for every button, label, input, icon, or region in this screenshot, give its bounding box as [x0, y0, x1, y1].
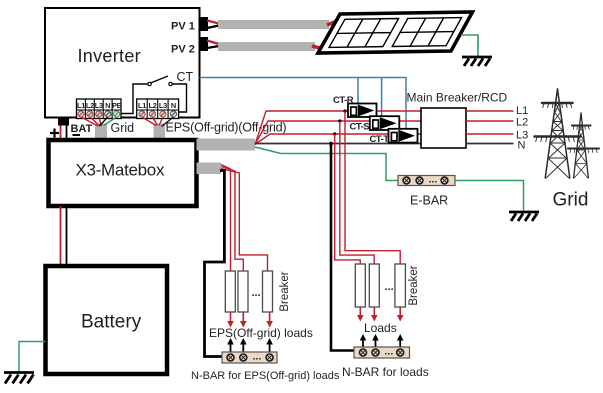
wire L2 red: [255, 121, 421, 145]
CT sensor CT-S: [370, 116, 400, 130]
wire tb2 L1 to EPS conduit: [142, 117, 156, 126]
breaker Loads 1: [355, 264, 365, 307]
svg-text:...: ...: [429, 174, 438, 186]
PV1 connector: [200, 17, 209, 31]
breaker EPS 3: [263, 271, 273, 312]
svg-text:L1: L1: [77, 101, 85, 110]
svg-text:Breaker: Breaker: [279, 271, 291, 311]
svg-text:L2: L2: [86, 101, 94, 110]
wire tb1 N to Grid conduit: [100, 117, 108, 126]
solar panel PV array: [318, 12, 473, 53]
svg-text:L2: L2: [148, 101, 156, 110]
wire L1 tap to breaker3: [345, 111, 400, 264]
node L1 tap: [343, 109, 346, 112]
svg-text:L1: L1: [516, 105, 528, 117]
wire L3 red: [255, 134, 421, 145]
svg-text:...: ...: [252, 287, 261, 299]
svg-text:L2: L2: [516, 117, 528, 129]
wire tb1 PE to Grid conduit: [104, 117, 117, 126]
Main Breaker / RCD box: [421, 108, 466, 148]
panel cells group B: [392, 18, 461, 47]
conduit EPS (gray): [154, 124, 166, 141]
wire EPS feed to breaker1 (red): [221, 165, 231, 272]
breaker Loads 2: [369, 264, 379, 307]
svg-text:PV 2: PV 2: [171, 44, 195, 56]
svg-text:BAT: BAT: [71, 123, 93, 135]
wire E-BAR ground (green): [455, 181, 524, 212]
node N junction: [329, 142, 333, 146]
wire CT bus (blue): [200, 78, 407, 129]
conduit Grid (gray): [95, 124, 107, 141]
arrows EPS breaker outputs (red): [227, 312, 273, 328]
CT switch S1: [121, 76, 187, 114]
wire switch left leg: [121, 84, 148, 114]
wire BAT red: [60, 126, 62, 141]
CT sensor CT-T: [389, 129, 418, 143]
E-BAR strip: [398, 174, 455, 186]
wire L3 out: [466, 133, 514, 135]
svg-text:Loads: Loads: [364, 321, 397, 335]
arrows to EPS loads (black, up): [227, 338, 273, 352]
wire switch right leg: [173, 84, 187, 112]
svg-text:Inverter: Inverter: [78, 46, 141, 66]
grid towers: [535, 89, 600, 178]
wire tb1 L1 to Grid conduit: [81, 117, 98, 126]
switch contact left: [148, 82, 151, 85]
svg-text:N: N: [171, 101, 176, 110]
wire L1 out: [466, 110, 514, 112]
svg-text:L1: L1: [138, 101, 146, 110]
wire L2 tap to breaker2: [340, 121, 374, 264]
svg-text:L3: L3: [95, 101, 103, 110]
switch lever: [151, 76, 169, 83]
svg-text:E-BAR: E-BAR: [410, 194, 448, 208]
wire CT bus horizontal + drop to CT-T: [200, 78, 407, 129]
svg-text:PV 1: PV 1: [171, 21, 195, 33]
svg-text:N: N: [105, 101, 110, 110]
svg-text:Breaker: Breaker: [408, 265, 420, 305]
node L2 tap: [338, 119, 341, 122]
wire tb2 N to EPS conduit: [162, 117, 174, 127]
N-BAR loads strip: [354, 346, 410, 359]
wire drop to CT-S: [381, 78, 383, 117]
wire tb2 L2 to EPS conduit: [153, 117, 158, 126]
wire tb1 L2 to Grid conduit: [90, 117, 100, 126]
svg-text:N-BAR for loads: N-BAR for loads: [342, 365, 429, 379]
svg-text:Grid: Grid: [111, 121, 135, 135]
terminal block 2 (EPS: L1 L2 L3 N): [137, 99, 179, 119]
svg-text:N: N: [518, 140, 526, 152]
svg-text:...: ...: [385, 346, 394, 358]
wire PV panel ground (green): [461, 35, 478, 56]
EPS output bus bar (gray): [197, 139, 256, 151]
tb2 screws: [139, 111, 177, 117]
breaker Loads 3: [395, 264, 406, 307]
PV2 connector: [200, 37, 209, 51]
wire EPS N to N-BAR (thick black): [205, 171, 225, 357]
svg-text:Battery: Battery: [81, 312, 142, 333]
Battery box: [46, 266, 168, 374]
wire Matebox to Battery black: [66, 206, 68, 266]
wire Matebox to Battery red: [60, 206, 62, 266]
N-BAR EPS strip: [222, 351, 277, 364]
wire EPS feed to breaker3 (red): [221, 169, 268, 272]
wire PE green to E-BAR: [255, 147, 398, 181]
PV1 cable (gray): [218, 20, 329, 29]
arrows to loads (black, up): [360, 334, 404, 347]
svg-text:...: ...: [253, 351, 262, 363]
breaker EPS 2: [238, 271, 248, 312]
label plus: [50, 129, 59, 138]
breaker EPS 1: [225, 271, 235, 312]
wire tb2 L3 to EPS conduit: [159, 117, 163, 126]
wire drop to CT-R: [357, 78, 359, 104]
svg-text:CT-T: CT-T: [370, 134, 390, 145]
EPS loads feed bar (gray): [197, 163, 222, 175]
wire EPS feed to breaker2 (red): [221, 167, 243, 272]
X3-Matebox: [49, 140, 197, 206]
wire L1 red: [255, 111, 421, 145]
ground symbol (battery): [4, 373, 34, 384]
tb1 screws: [78, 111, 120, 117]
wire L3 tap to breaker1: [335, 134, 361, 264]
svg-text:X3-Matebox: X3-Matebox: [76, 161, 165, 180]
CT sensor CT-R: [348, 104, 377, 118]
node L3 tap: [333, 132, 336, 135]
svg-text:CT-S: CT-S: [350, 122, 370, 133]
svg-text:N-BAR for EPS(Off-grid) loads: N-BAR for EPS(Off-grid) loads: [191, 370, 340, 382]
ground symbol (PV): [462, 57, 492, 66]
svg-text:EPS(Off-grid)(Off-grid): EPS(Off-grid)(Off-grid): [166, 121, 287, 135]
svg-text:Main Breaker/RCD: Main Breaker/RCD: [407, 91, 508, 105]
svg-text:CT: CT: [177, 70, 194, 84]
inverter box: [45, 8, 200, 118]
BAT connector: [58, 118, 69, 126]
svg-text:CT-R: CT-R: [333, 95, 354, 106]
svg-text:PE: PE: [112, 101, 122, 110]
wire N to loads N-BAR (thick black): [331, 144, 354, 351]
svg-text:Grid: Grid: [553, 190, 589, 211]
svg-text:L3: L3: [159, 101, 167, 110]
wire tb1 L3 to Grid conduit: [99, 117, 102, 126]
svg-text:...: ...: [385, 281, 394, 293]
wire N out: [466, 143, 514, 145]
switch contact right: [169, 82, 172, 85]
panel cells group A: [329, 19, 399, 48]
wire BAT black: [66, 126, 68, 141]
svg-text:EPS(Off-grid) loads: EPS(Off-grid) loads: [209, 326, 313, 340]
arrows loads breaker outputs (red): [357, 307, 404, 322]
wire L2 out: [466, 120, 514, 122]
label minus: [73, 134, 81, 136]
wire N black: [255, 143, 421, 145]
wire Battery ground (green): [19, 342, 46, 372]
ground symbol (E-BAR): [509, 212, 539, 221]
terminal block 1 (Grid: L1 L2 L3 N PE): [77, 99, 122, 119]
PV2 cable (gray): [218, 42, 315, 51]
